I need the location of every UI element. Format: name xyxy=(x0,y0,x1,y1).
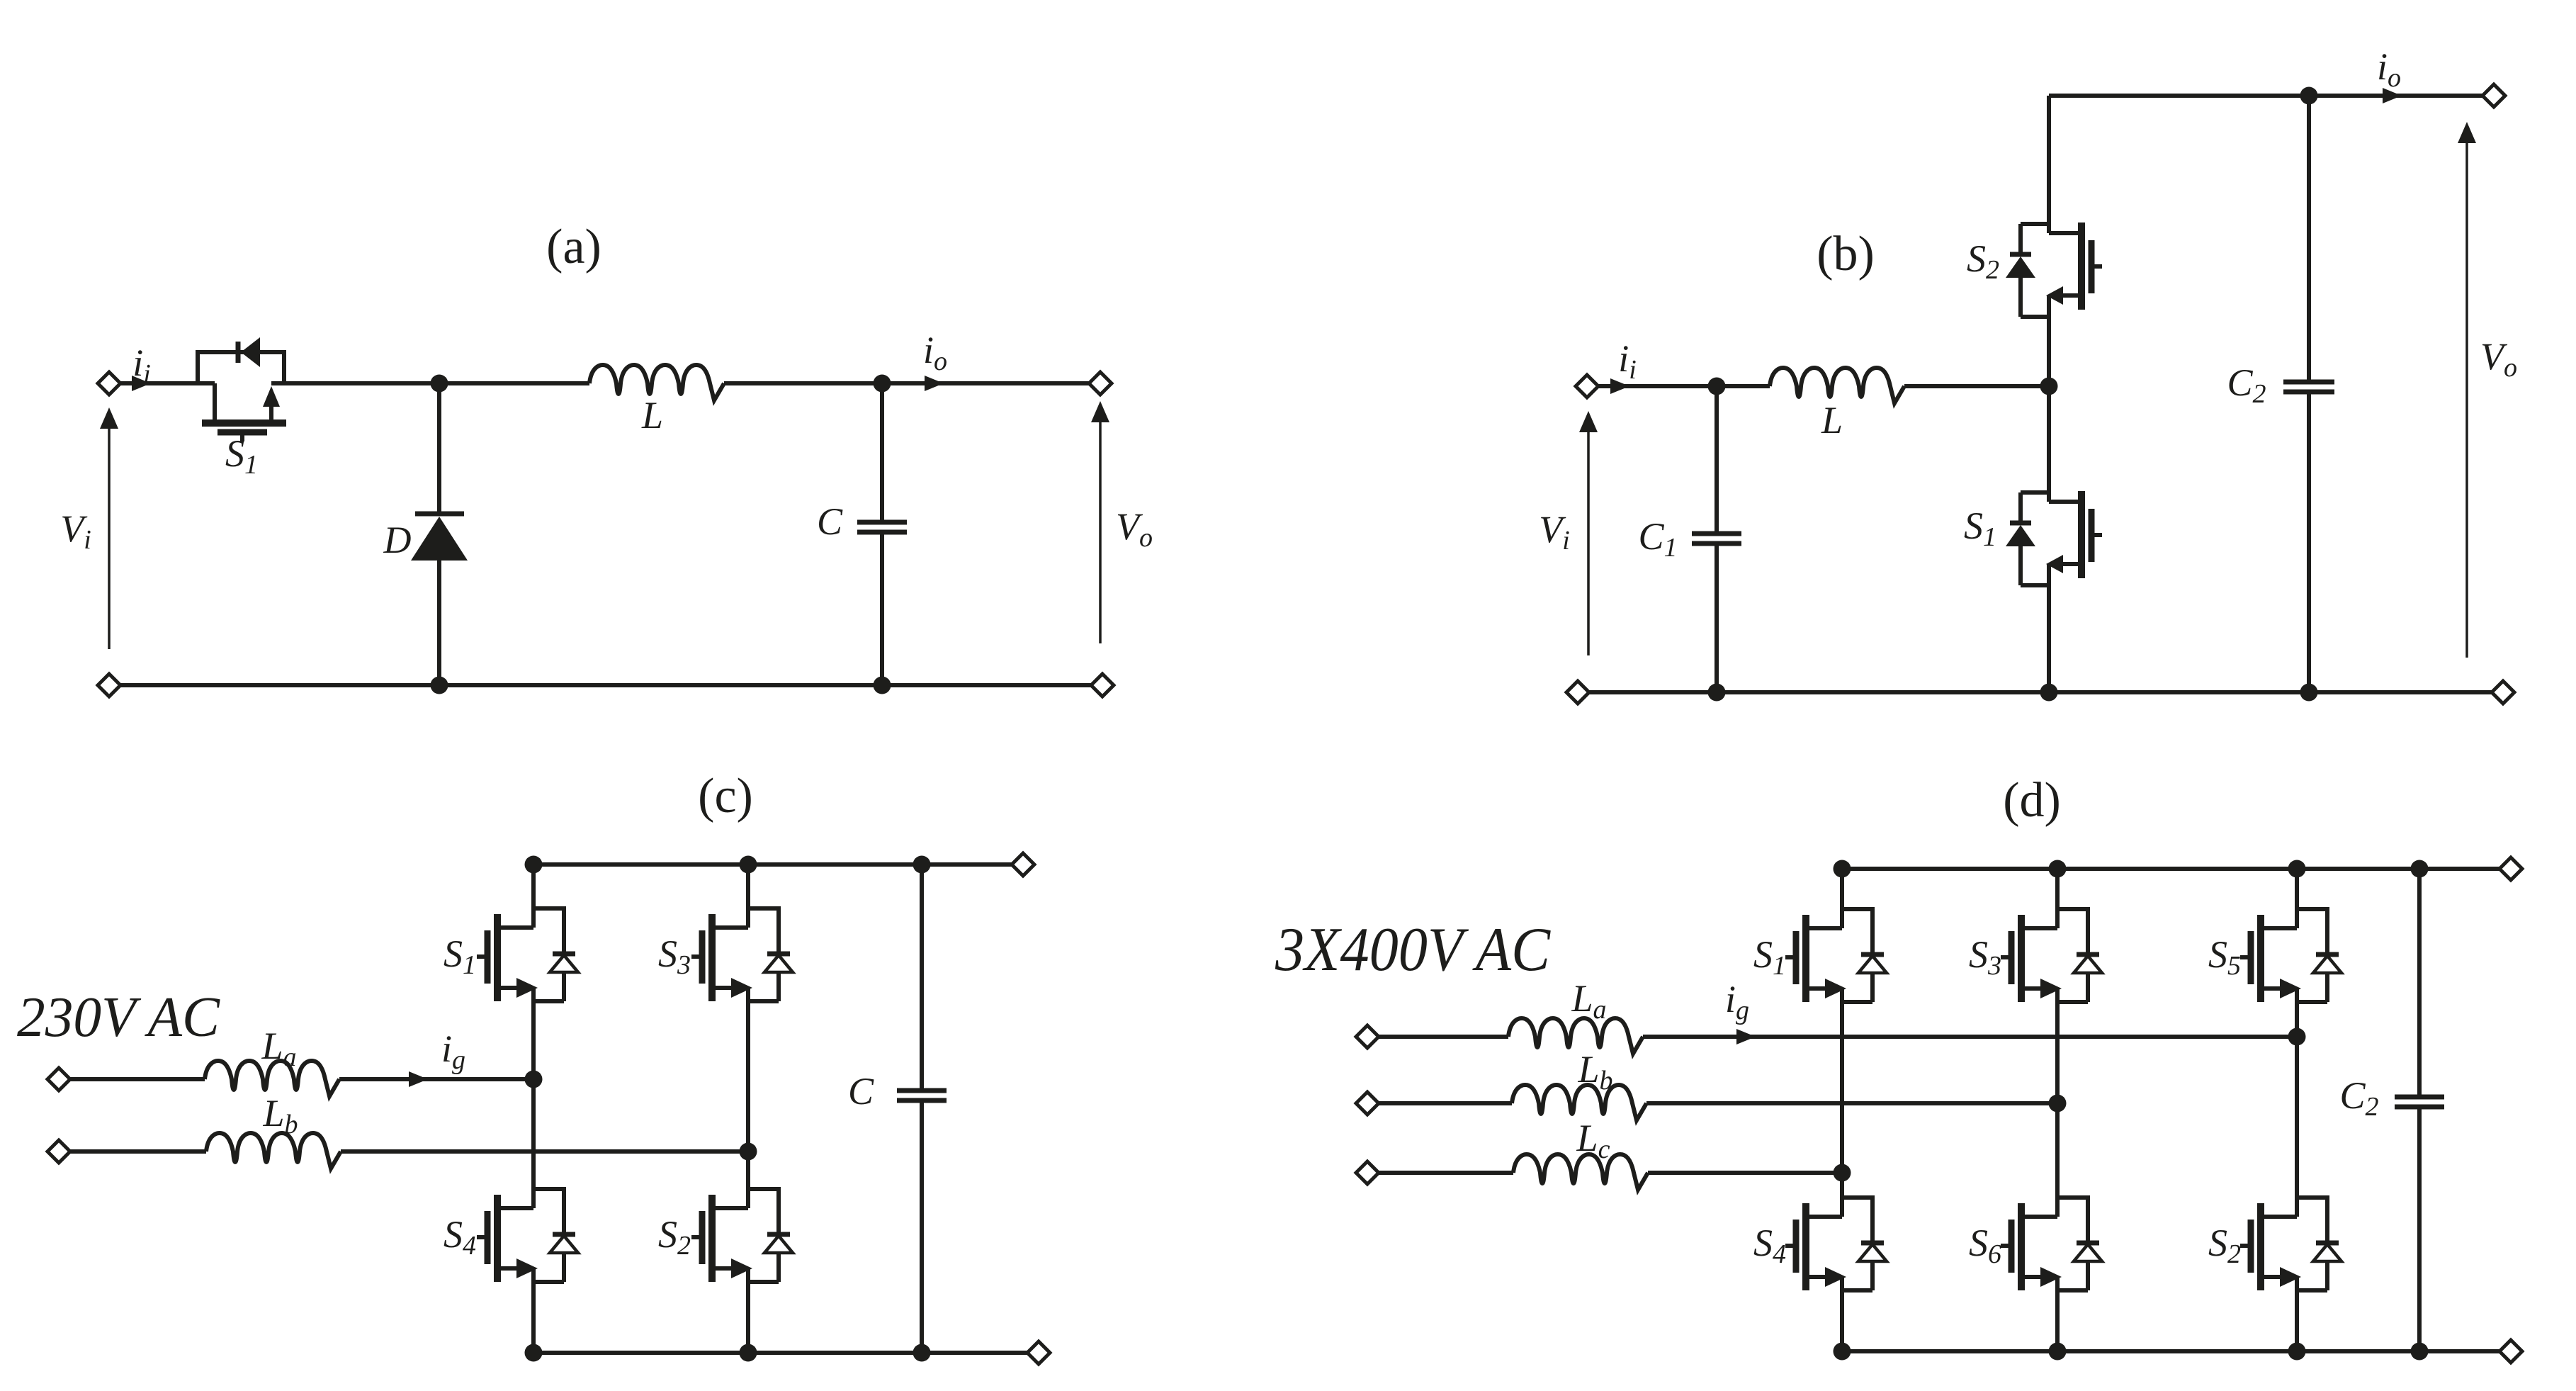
svg-text:C: C xyxy=(848,1070,874,1113)
svg-text:L: L xyxy=(641,394,663,437)
svg-text:(c): (c) xyxy=(698,769,753,823)
svg-text:L: L xyxy=(1821,399,1843,441)
svg-text:C: C xyxy=(817,500,843,543)
svg-text:230V AC: 230V AC xyxy=(17,986,221,1049)
svg-text:(b): (b) xyxy=(1817,227,1875,281)
svg-text:3X400V AC: 3X400V AC xyxy=(1275,916,1551,984)
svg-text:(a): (a) xyxy=(546,220,601,274)
svg-text:(d): (d) xyxy=(2003,773,2061,828)
svg-text:D: D xyxy=(383,519,412,561)
